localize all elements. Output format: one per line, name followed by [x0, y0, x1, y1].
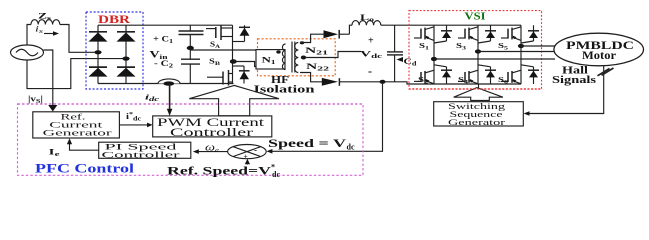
node: arrowhead into summer: [266, 149, 272, 154]
svg-text:S1: S1: [419, 41, 429, 52]
label + Vdc -: [360, 36, 383, 79]
svg-text:Controller: Controller: [102, 150, 180, 160]
transformer primary N1: [256, 44, 286, 70]
VSI block box: [409, 11, 542, 89]
transistor S5: [501, 25, 539, 43]
inductor Zs: [31, 20, 60, 25]
wire: output bottom rail: [339, 82, 521, 84]
ref current generator box: [33, 112, 120, 138]
diode D4 (DBR right bottom): [117, 59, 136, 84]
svg-text:idc: idc: [145, 93, 160, 104]
label HF Isolation: [254, 74, 315, 96]
transistor S2: [414, 65, 452, 84]
node: DBR right input junction: [122, 57, 129, 61]
current sensor hump idc: [158, 79, 180, 84]
svg-text:Lo: Lo: [360, 12, 374, 24]
wire: vs sense tap: [44, 50, 53, 108]
block arrow: SSG to VSI: [454, 88, 503, 101]
node: vs sense arrowhead into Ref box: [48, 105, 57, 112]
wire: switch midpoint to primary bottom: [233, 62, 256, 67]
wire: Vdc sense down to summing point: [270, 82, 383, 152]
PFC control box: [18, 104, 364, 175]
DBR block box: [86, 12, 143, 89]
wire: VSI box bottom edge overlay: [409, 88, 542, 90]
wire: hall signals from motor to SSG: [527, 66, 604, 114]
hall slash mark: [598, 69, 610, 76]
PWM current controller box: [153, 116, 272, 139]
svg-text:Generator: Generator: [448, 117, 505, 127]
svg-text:Speed = V: Speed = V: [268, 136, 346, 150]
label Hall Signals: [552, 64, 597, 86]
node: Vdc sense junction: [380, 80, 386, 84]
transistor S3: [458, 25, 496, 43]
node: phase C junction: [518, 44, 524, 48]
svg-text:SB: SB: [209, 57, 220, 68]
node: SA-SB midpoint: [230, 59, 237, 64]
svg-text:Generator: Generator: [43, 128, 113, 137]
wire: idc sense arrow into PWM box: [167, 84, 173, 116]
wire: output top rail: [381, 24, 521, 26]
PI speed controller box: [99, 141, 191, 159]
wire: source top to Zs rail: [27, 25, 31, 46]
transformer core: [292, 42, 295, 73]
transistor SB (lower HF switch): [207, 62, 250, 86]
svg-text:i*dc: i*dc: [126, 112, 141, 123]
capacitor Cd: [387, 25, 403, 82]
HF isolation box: [258, 39, 336, 76]
wire: ref speed arrow into summer: [245, 159, 250, 165]
svg-text:Vdc: Vdc: [360, 49, 383, 61]
wire: PFC box top edge overlay: [18, 103, 364, 105]
wire: Ie from PI to Ref generator: [67, 138, 99, 150]
wire: secondary top to diode D5: [300, 34, 324, 42]
label is + arrow: [35, 25, 59, 36]
wire: phase B to motor: [478, 51, 555, 53]
wire: SSG apex tick: [478, 84, 480, 89]
diode D6 (output bottom): [322, 78, 340, 86]
transistor SA (upper HF switch): [206, 25, 250, 61]
inductor Lo: [352, 21, 381, 26]
wire: DBR top rail: [98, 24, 233, 26]
wire: Zs to DBR upper input: [60, 25, 98, 53]
diode D3 (DBR right top): [117, 25, 136, 58]
svg-text:Controller: Controller: [170, 127, 253, 139]
diode D2 (DBR left bottom): [89, 52, 108, 83]
wire: C midpoint to primary top: [190, 49, 256, 51]
VSI leg 2 wire: [477, 25, 479, 84]
svg-text:Zs: Zs: [38, 12, 52, 23]
svg-text:-: -: [254, 145, 257, 155]
svg-text:DBR: DBR: [98, 14, 131, 26]
svg-text:Motor: Motor: [582, 48, 617, 62]
svg-text:S2: S2: [418, 75, 428, 86]
svg-text:N22: N22: [306, 61, 329, 73]
capacitor C2: [181, 48, 200, 84]
svg-text:S5: S5: [498, 41, 508, 52]
switching sequence generator box: [434, 101, 524, 127]
summing junction: [228, 145, 267, 161]
svg-text:PFC Control: PFC Control: [35, 160, 135, 175]
transistor S1: [414, 25, 452, 43]
svg-text:Signals: Signals: [552, 74, 597, 86]
wire: omega arrow summer to PI: [193, 149, 228, 154]
svg-text:SA: SA: [210, 40, 220, 51]
svg-text:- C2: - C2: [154, 59, 173, 70]
wire: DBR bottom rail: [98, 83, 234, 85]
wire: D5 cathode riser to Lo: [349, 25, 352, 34]
wire: source bottom to DBR lower input: [27, 59, 126, 89]
diode D1 (DBR left top): [89, 25, 108, 52]
svg-text:-: -: [368, 64, 372, 78]
wire: secondary bottom to diode D6: [300, 73, 322, 82]
svg-text:N21: N21: [305, 45, 328, 57]
transistor S6: [501, 65, 539, 84]
svg-text:Ref. Speed=V: Ref. Speed=V: [167, 163, 271, 177]
node: C1-C2 midpoint: [187, 46, 194, 50]
wire: phase C to motor: [521, 45, 556, 47]
wire: phase A to motor: [434, 58, 555, 60]
wire: i*dc arrow Ref to PWM: [119, 123, 152, 128]
transformer secondary N21/N22: [295, 41, 306, 72]
svg-text:Cd: Cd: [404, 56, 418, 68]
VSI leg 1 wire: [433, 25, 435, 84]
svg-text:+: +: [368, 36, 374, 47]
transistor S4: [458, 65, 496, 84]
diode D5 (output top): [324, 30, 350, 39]
label Cd with arrow: [397, 56, 418, 68]
svg-text:+: +: [244, 152, 248, 161]
VSI leg 3 wire: [520, 25, 522, 84]
ac source Vs: [11, 45, 44, 60]
block arrow: PWM to gate drives: [189, 85, 279, 115]
svg-text:is: is: [35, 25, 44, 36]
motor PMBLDC: [554, 33, 644, 66]
node: phase B junction: [475, 49, 481, 53]
svg-text:ωe: ωe: [205, 142, 219, 154]
node: phase A junction: [431, 57, 437, 61]
node: DBR left input junction: [94, 50, 101, 54]
svg-text:S4: S4: [458, 75, 468, 86]
wire: center tap to Vdc minus: [305, 52, 361, 58]
svg-text:+ C1: + C1: [153, 35, 173, 46]
svg-text:S6: S6: [498, 75, 508, 86]
svg-text:VSI: VSI: [465, 12, 486, 23]
capacitor C1: [179, 25, 204, 48]
node: arrowhead into SSG: [524, 111, 530, 116]
svg-text:Ie: Ie: [49, 146, 61, 158]
svg-text:dc: dc: [347, 143, 355, 152]
svg-text:dc: dc: [272, 170, 280, 179]
svg-text:S3: S3: [456, 41, 466, 52]
